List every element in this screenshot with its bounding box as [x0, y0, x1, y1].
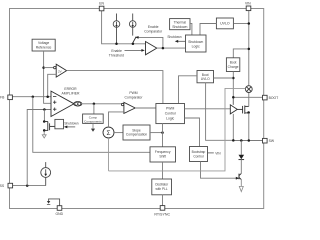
wire oscillator to RT/SYNC pin: [162, 195, 164, 206]
block Shutdown Logic: [186, 35, 207, 52]
junction dot boot charge / boot uvlo: [232, 77, 235, 80]
junction dot VIN/UVLO: [248, 22, 251, 25]
svg-text:Oscillator: Oscillator: [155, 183, 169, 187]
block Oscillator with PLL: [152, 179, 172, 195]
pin FB: [8, 95, 13, 100]
junction dot boot rail / driver: [232, 96, 235, 99]
svg-text:RT/SYNC: RT/SYNC: [154, 212, 170, 216]
block PWM Control Logic: [156, 104, 185, 124]
wire SS up to error amp soft-start input: [27, 110, 51, 186]
svg-text:Enable: Enable: [148, 25, 159, 29]
wire enable comparator output to shutdown logic: [157, 47, 186, 49]
wire slope compensation to oscillator chain: [150, 132, 163, 134]
svg-text:Shutdown: Shutdown: [167, 35, 181, 39]
junction dot SS branch: [26, 184, 29, 187]
pin VIN: [246, 6, 251, 11]
wire boot uvlo left to pwm control logic: [179, 76, 198, 104]
pin SW: [263, 138, 268, 143]
wire vref to 2V buffer input: [44, 67, 54, 69]
svg-text:UVLO: UVLO: [220, 22, 230, 26]
op-amp U1 error amplifier: [51, 91, 74, 116]
wire boot uvlo right to boot charge rail: [214, 77, 234, 79]
wire sigma to slope compensation: [114, 132, 123, 134]
wire frequency shift to oscillator: [162, 162, 164, 179]
svg-text:2V: 2V: [58, 70, 62, 74]
gm output stage symbol: [74, 102, 82, 107]
wire pwm logic right to gate driver: [185, 108, 231, 110]
pin GND: [57, 206, 62, 211]
block Voltage Reference: [32, 39, 55, 51]
op-amp PWM comparator: [121, 103, 123, 105]
wire down to comp components: [93, 104, 95, 114]
svg-text:Shutdown: Shutdown: [172, 25, 187, 29]
wire sigma to pwm comparator lower input: [109, 112, 124, 127]
svg-text:PWM: PWM: [166, 106, 174, 110]
svg-text:Shutdown: Shutdown: [188, 40, 203, 44]
wire driver top to BOOT rail: [232, 97, 234, 105]
svg-text:Shutdown: Shutdown: [64, 122, 78, 126]
wire power switch source to SW rail: [248, 113, 250, 141]
svg-text:UVLO: UVLO: [201, 77, 210, 81]
junction dot SW/diode: [240, 139, 243, 142]
pin SS: [8, 183, 13, 188]
block Comp Components: [83, 114, 104, 123]
wire driver bottom to SW rail: [232, 114, 234, 140]
svg-text:Σ: Σ: [106, 130, 110, 137]
svg-text:Voltage: Voltage: [38, 41, 49, 45]
block Boot Charge: [226, 58, 239, 72]
wire bootstrap control to sense transistor gate: [201, 162, 237, 179]
svg-text:Compensation: Compensation: [126, 133, 147, 137]
op-amp gate driver: [230, 105, 237, 114]
wire pwm comparator output to pwm control logic: [135, 107, 156, 109]
wire diode to sense transistor: [240, 160, 242, 174]
block Frequency Shift: [150, 147, 176, 162]
gate drive box for shutdown transistor: [55, 119, 64, 128]
svg-text:Boot: Boot: [202, 73, 209, 77]
pin EN: [99, 6, 104, 11]
svg-text:Frequency: Frequency: [155, 150, 171, 154]
wire 2V buffer output to pwm control logic: [67, 71, 163, 104]
junction dot EN bus / switch: [132, 43, 135, 46]
svg-text:SW: SW: [269, 139, 275, 143]
op-amp enable comparator: [146, 42, 157, 55]
svg-text:Logic: Logic: [166, 116, 174, 120]
ground arrow below shutdown transistor: [43, 132, 45, 136]
wire power switch drain up through current sensor: [248, 93, 250, 107]
svg-text:Control: Control: [193, 154, 204, 158]
current sensor (circle with X): [245, 86, 252, 93]
svg-text:Control: Control: [165, 111, 176, 115]
wire boot uvlo bottom to SW rail: [206, 83, 234, 141]
wire FB pin to error amp inverting input: [12, 96, 51, 98]
wire pwm logic down to frequency shift: [162, 124, 164, 147]
GND hook symbol: [49, 199, 60, 206]
current source I2 (enable pull-up): [129, 14, 136, 36]
chip outline border: [10, 9, 264, 209]
svg-text:SS: SS: [0, 184, 5, 188]
ground arrow below sense transistor: [239, 186, 243, 191]
wire FB down and across to frequency shift: [33, 97, 150, 153]
current source soft-start charge: [41, 162, 51, 186]
wire UVLO to shutdown logic: [200, 24, 216, 36]
wire 2V buffer feedback from FB node: [48, 74, 57, 96]
pin RT/SYNC: [160, 206, 165, 211]
svg-text:Slope: Slope: [132, 128, 141, 132]
svg-text:VIN: VIN: [245, 1, 251, 5]
block Boot UVLO: [197, 71, 214, 83]
svg-text:BOOT: BOOT: [269, 96, 279, 100]
wire EN pin down and across to enable comparator: [102, 11, 146, 44]
pin BOOT: [263, 95, 268, 100]
svg-text:PWM: PWM: [129, 91, 137, 95]
junction dot comp components tap: [93, 103, 96, 106]
svg-text:Bootstrap: Bootstrap: [192, 150, 206, 154]
svg-text:EN: EN: [99, 1, 104, 5]
wire SW rail: [233, 140, 262, 142]
svg-text:AMPLIFIER: AMPLIFIER: [62, 92, 80, 96]
block UVLO: [216, 18, 233, 29]
junction dot vref / 2V buffer: [42, 66, 45, 69]
svg-text:with PLL: with PLL: [155, 187, 167, 191]
svg-text:Thermal: Thermal: [174, 20, 187, 24]
switch control wire from enable comparator output: [138, 37, 163, 48]
svg-text:Enable: Enable: [111, 49, 122, 53]
svg-text:Components: Components: [84, 119, 102, 123]
VIN tick on bootstrap control: [208, 152, 214, 154]
transistor Q1 power switch: [237, 105, 249, 114]
transistor Q shutdown pulldown of soft-start node: [43, 110, 45, 122]
junction dot EN bus / I1: [115, 43, 118, 46]
junction dot FB / frequency shift branch: [32, 95, 35, 98]
svg-text:Boot: Boot: [230, 61, 237, 65]
wire thermal shutdown to shutdown logic: [190, 23, 192, 35]
wire vref down to error amp mid input: [44, 51, 51, 103]
svg-text:Threshold: Threshold: [109, 54, 124, 58]
wire pwm logic to bootstrap control: [185, 118, 200, 147]
summing node sigma: [103, 127, 114, 138]
block Bootstrap Control: [190, 147, 208, 162]
svg-text:Charge: Charge: [228, 65, 239, 69]
wire boot charge down to BOOT rail and driver: [232, 72, 234, 105]
wire UVLO to VIN rail: [233, 23, 248, 25]
junction dot soft-start / shutdown pulldown: [43, 108, 46, 111]
wire sigma bottom down: [108, 138, 110, 171]
op-amp 2V buffer: [54, 66, 56, 68]
current source I1 (enable hysteresis): [113, 14, 120, 44]
block Thermal Shutdown: [170, 19, 190, 30]
svg-text:Logic: Logic: [192, 45, 200, 49]
svg-text:FB: FB: [0, 95, 5, 99]
svg-text:Shift: Shift: [159, 155, 166, 159]
junction dot slope/oscillator chain: [161, 131, 164, 134]
wire error amp output to pwm comparator: [82, 103, 122, 105]
wire VIN to boot charge: [233, 49, 249, 58]
transistor Q2 low-side sense: [238, 174, 240, 180]
wire current sense to sigma: [109, 88, 246, 170]
svg-text:GND: GND: [56, 212, 64, 216]
svg-text:Comparator: Comparator: [144, 30, 163, 34]
switch blade for hysteresis current: [133, 37, 136, 43]
block Slope Compensation: [123, 125, 150, 140]
diode D1 from SW: [240, 141, 242, 155]
wire BOOT rail: [233, 96, 262, 98]
svg-text:VIN: VIN: [215, 151, 221, 155]
junction dot FB / 2V buffer feedback: [46, 95, 49, 98]
junction dot SW/power switch source: [248, 139, 251, 142]
wire VIN rail down right side: [248, 11, 250, 86]
svg-text:Reference: Reference: [36, 46, 52, 50]
junction dot VIN/boot charge: [248, 48, 251, 51]
junction dot comparator output: [162, 47, 165, 50]
junction dot SW/driver return: [232, 139, 235, 142]
ground arrow below comp components: [92, 123, 94, 129]
svg-text:Comparator: Comparator: [125, 96, 144, 100]
wire SS pin across: [12, 185, 45, 187]
